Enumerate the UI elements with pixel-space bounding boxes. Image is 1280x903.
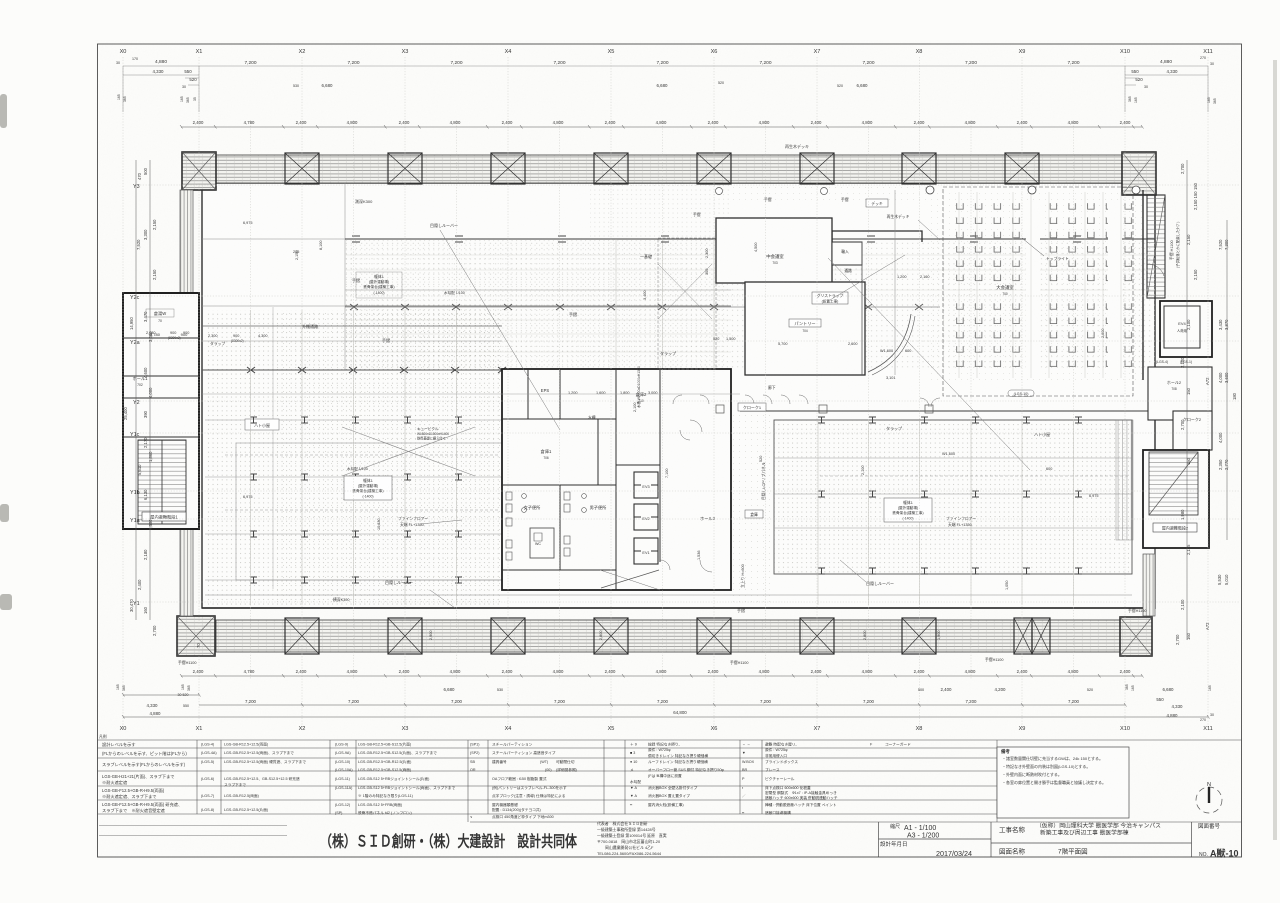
legend rows: fourth group (741, 742, 838, 816)
elevators EV1 EV2 EV3 (634, 472, 658, 564)
left wing labels (133, 310, 167, 387)
mid-top rooms block (658, 188, 930, 391)
upper terrace area lines (202, 183, 345, 370)
company info small text (597, 821, 667, 856)
north compass (1196, 782, 1222, 813)
top louver band (216, 155, 1122, 183)
corridor arcs top of south area (202, 394, 940, 570)
hall right wall (1142, 190, 1144, 380)
signature lines bottom-left (99, 826, 287, 836)
right floor horizontal lines (774, 458, 1132, 528)
toilet fixtures (506, 492, 586, 560)
mid floor texture (731, 411, 774, 606)
right top stairs (1147, 195, 1165, 298)
boxed labels: 躯体(屋外運動場) left (344, 476, 428, 527)
faint horizontal grid lines (140, 185, 1240, 602)
tiny rotated tick clusters top (117, 94, 1217, 104)
right rotated dims column (1175, 163, 1237, 645)
クローク1 label (738, 403, 766, 411)
グリストラップ label (812, 292, 848, 304)
left vertical louver strip lower (180, 529, 193, 616)
aisle gaps (1026, 200, 1040, 376)
X grid labels top (120, 49, 1213, 55)
hall top wall circles (926, 186, 934, 194)
top dim lines (123, 66, 1208, 112)
top dim row 2 (116, 57, 1178, 89)
skylight void with diagonals (658, 238, 716, 369)
left wing block (123, 293, 199, 529)
main floor plate outline (202, 183, 1155, 608)
left area vertical half-grid lines (251, 239, 1074, 605)
left wing stairs (138, 440, 186, 524)
extra legend group symbols (629, 742, 724, 808)
corridor line above south wall (205, 594, 1132, 596)
door arc (868, 314, 911, 372)
ハト小屋 boxed label left (245, 419, 279, 430)
bottom louver band (216, 620, 1122, 652)
top dim row 3: 2,400/4,800 series (193, 120, 1131, 125)
top dim line row3 with ticks (180, 125, 1144, 129)
top band right corner block (1122, 152, 1156, 195)
south wall (202, 607, 1155, 609)
bottom dim row B (147, 687, 1215, 722)
core internal walls (502, 369, 660, 590)
屋内避難階段1 label (142, 512, 186, 521)
Y grid labels left (130, 184, 140, 607)
top band crosshatch columns (285, 153, 1039, 184)
leader diagonal lines (420, 220, 1030, 608)
display case strip (1116, 420, 1133, 540)
faint vertical grid lines (123, 57, 1208, 728)
deck strip dots (590, 185, 731, 239)
right floor area box (774, 420, 1132, 574)
bottom band right corner block (1120, 617, 1152, 656)
bottom band X9 double block (1014, 618, 1050, 654)
misc small dim texts inside plan (146, 240, 1009, 640)
upper zone column ticks (352, 236, 1081, 242)
left vertical louver strip upper (180, 190, 193, 295)
legend table frame (98, 740, 1242, 822)
upper inner zone ceiling grid texture (345, 239, 1155, 370)
title strip (879, 822, 1192, 857)
legend rows: code columns (201, 742, 456, 816)
X grid labels bottom (120, 726, 1213, 732)
upper zone extra horizontal lines (345, 255, 1155, 352)
left floor inner rect (236, 443, 502, 580)
bottom band left corner block (177, 616, 215, 656)
right edge louver strip (1143, 554, 1155, 616)
column symbols right area (818, 417, 1082, 574)
left wing room dividers (123, 338, 199, 437)
備考 notes box (997, 747, 1129, 818)
column symbols left area (247, 367, 506, 583)
left dim vertical lines (136, 160, 150, 620)
top dim row 1: 7,200 series (155, 56, 1214, 66)
left floor area dotted texture (205, 310, 502, 605)
corner guard row (870, 742, 911, 747)
central core block (502, 369, 731, 590)
デッキ labels (866, 199, 888, 207)
plan annotation labels (178, 143, 1147, 665)
chairs lower block (952, 298, 1133, 373)
輸入/通路 small rooms (832, 242, 862, 265)
right floor area dotted texture (774, 420, 1132, 574)
inner zone top edge (345, 238, 1155, 240)
top band left corner block (182, 152, 216, 190)
倉庫 label mid (745, 510, 763, 518)
deck parapet step (832, 231, 922, 242)
vertical dividers (196, 740, 198, 814)
upper-left inner floor texture (345, 239, 725, 370)
chairs upper block (952, 202, 1133, 287)
left floor area horizontal lines (202, 326, 502, 580)
right wing stairs 屋内避難階段2 (1143, 450, 1209, 548)
boxed labels: 躯体 right (884, 498, 976, 527)
legend rows: third group (470, 742, 577, 820)
bottom band crosshatch columns (285, 618, 936, 654)
hall floor texture (931, 190, 1143, 380)
left rotated dims column (123, 167, 201, 648)
right wing rooms (1116, 301, 1212, 616)
bracing X + cubicle (342, 427, 475, 476)
core bottom ramp diagonal (601, 570, 659, 588)
bottom dim row A: 2,400/4,800 series (193, 669, 1131, 674)
hall 大会議室 (926, 186, 1143, 396)
legend rows: left group (99, 734, 187, 814)
